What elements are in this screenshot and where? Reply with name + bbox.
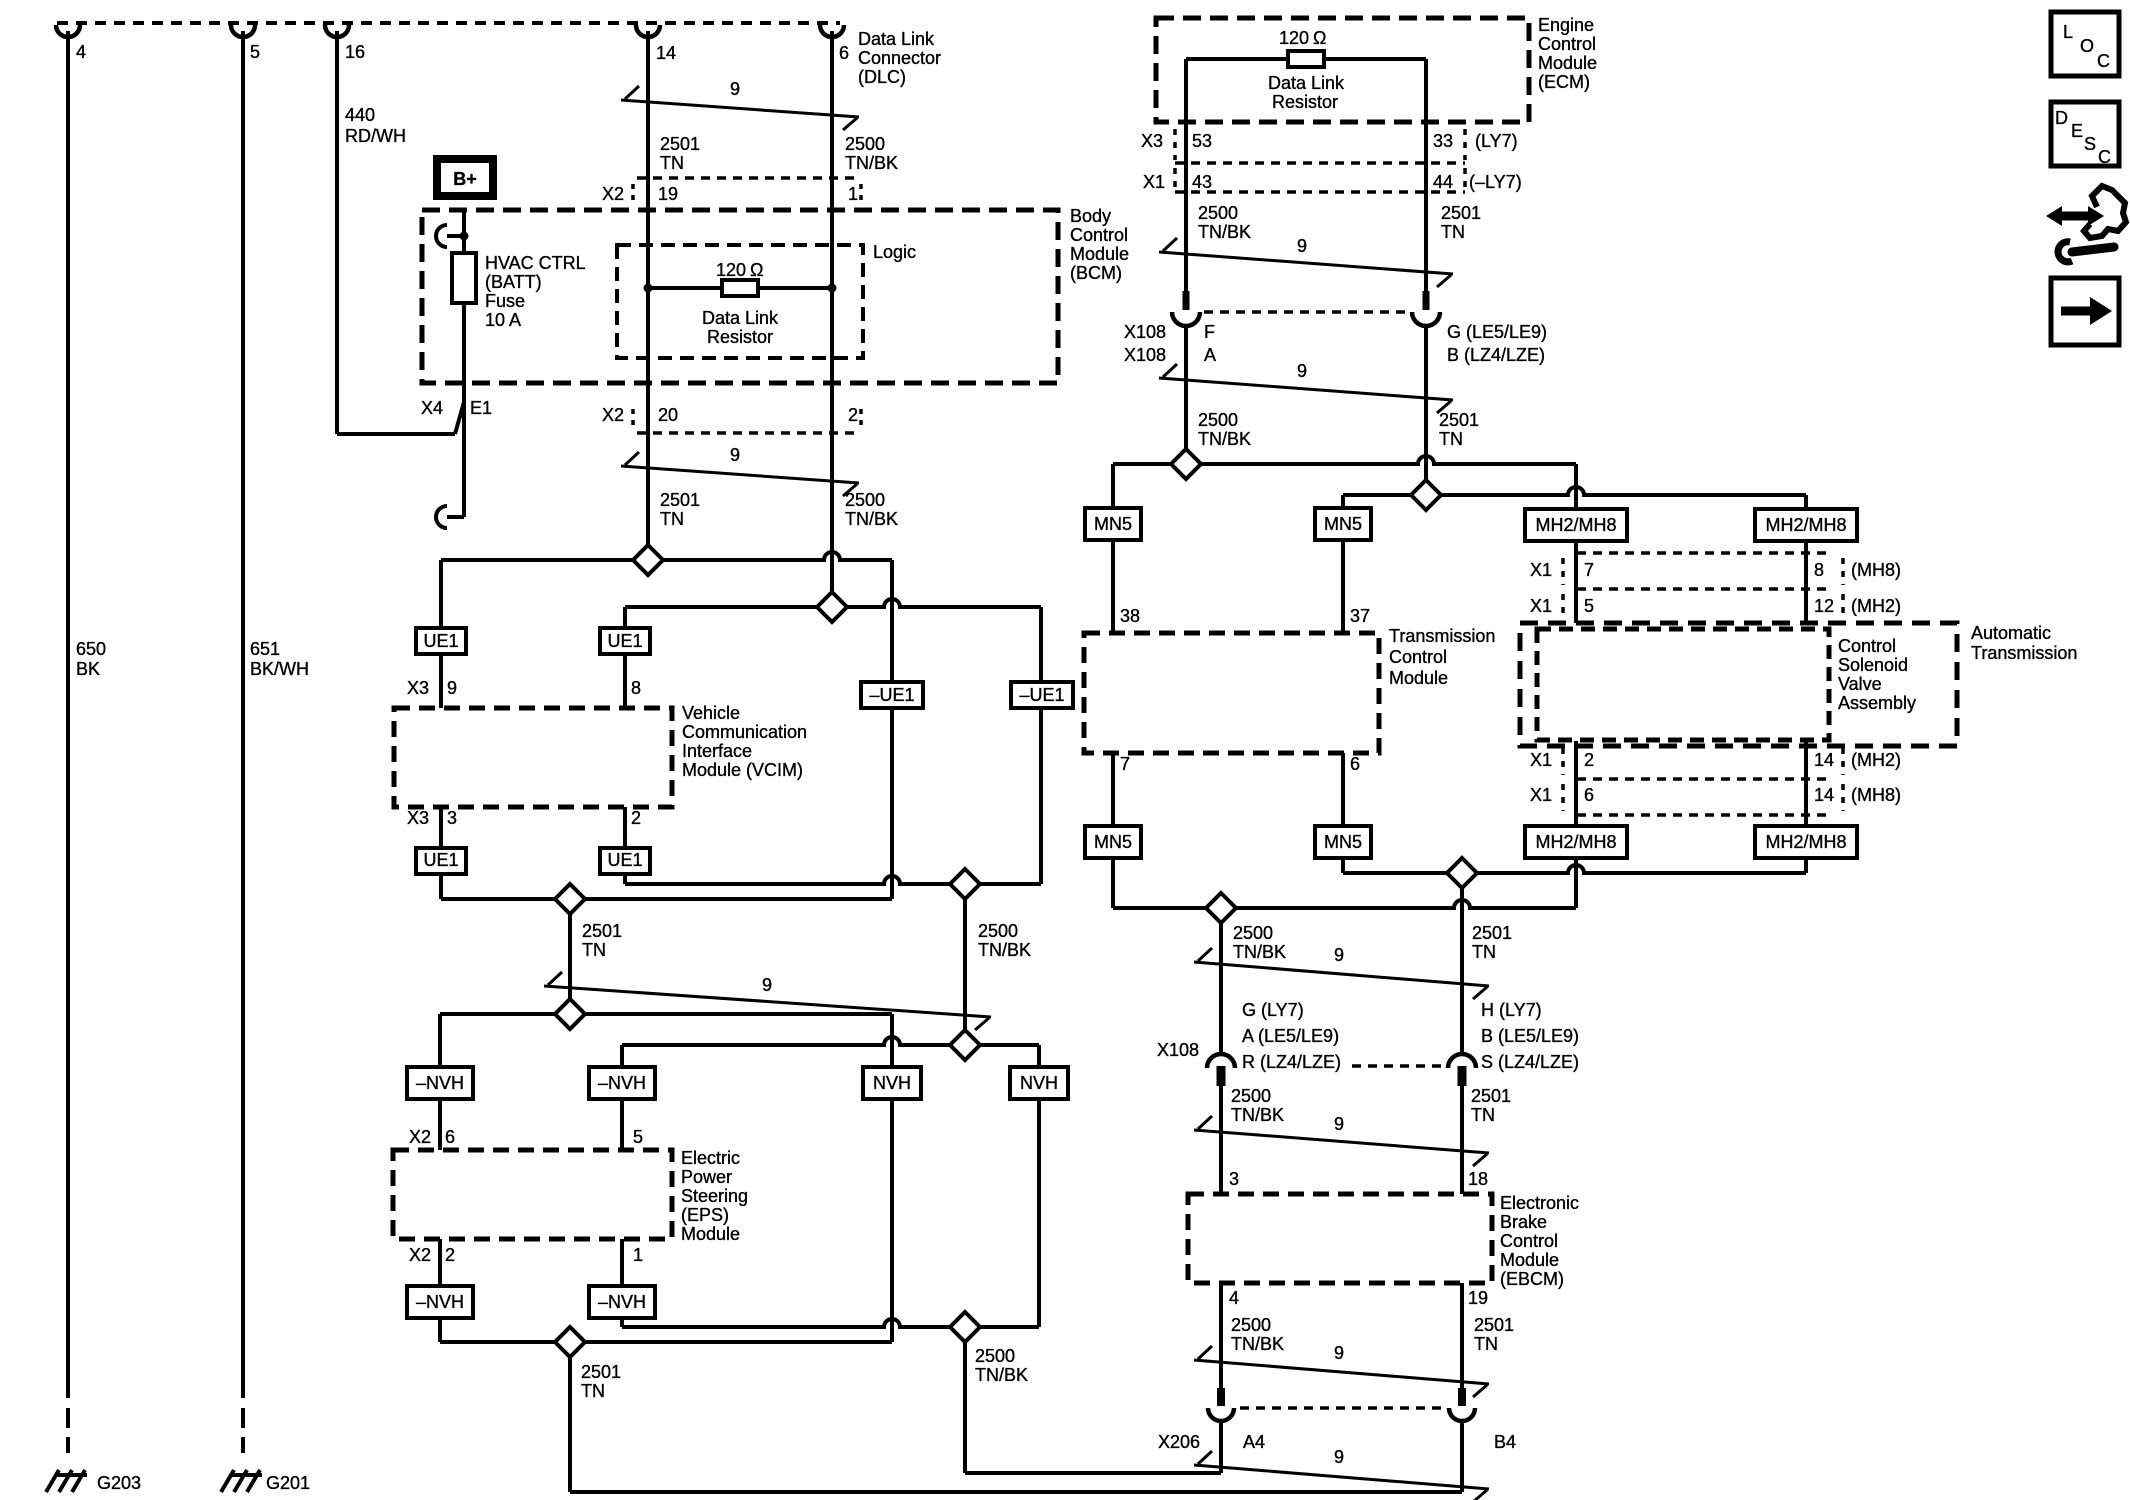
svg-text:2500: 2500 (1233, 923, 1273, 943)
svg-text:14: 14 (1814, 750, 1834, 770)
svg-text:A4: A4 (1243, 1432, 1265, 1452)
svg-text:2501: 2501 (660, 490, 700, 510)
svg-text:2501: 2501 (1441, 203, 1481, 223)
svg-text:UE1: UE1 (423, 631, 458, 651)
svg-text:2: 2 (848, 405, 858, 425)
svg-text:Vehicle: Vehicle (682, 703, 740, 723)
svg-text:8: 8 (1814, 560, 1824, 580)
svg-text:TN: TN (1439, 429, 1463, 449)
svg-text:X1: X1 (1530, 560, 1552, 580)
svg-text:53: 53 (1192, 131, 1212, 151)
svg-text:3: 3 (1229, 1169, 1239, 1189)
svg-text:B+: B+ (453, 169, 477, 189)
svg-text:38: 38 (1120, 606, 1140, 626)
svg-text:2500: 2500 (978, 921, 1018, 941)
svg-text:2500: 2500 (845, 134, 885, 154)
svg-text:TN: TN (1472, 942, 1496, 962)
svg-text:F: F (1204, 322, 1215, 342)
svg-text:Transmission: Transmission (1971, 643, 2077, 663)
svg-text:Power: Power (681, 1167, 732, 1187)
svg-text:44: 44 (1433, 172, 1453, 192)
svg-text:120: 120 (716, 260, 746, 280)
svg-text:S (LZ4/LZE): S (LZ4/LZE) (1481, 1052, 1579, 1072)
svg-text:2501: 2501 (660, 134, 700, 154)
svg-text:651: 651 (250, 639, 280, 659)
svg-text:10 A: 10 A (485, 310, 521, 330)
svg-text:TN/BK: TN/BK (978, 940, 1031, 960)
svg-text:(ECM): (ECM) (1538, 72, 1590, 92)
svg-text:E: E (2071, 121, 2083, 141)
svg-text:TN: TN (1474, 1334, 1498, 1354)
svg-text:B4: B4 (1494, 1432, 1516, 1452)
svg-text:MH2/MH8: MH2/MH8 (1765, 515, 1846, 535)
svg-text:33: 33 (1433, 131, 1453, 151)
svg-text:1: 1 (848, 184, 858, 204)
svg-text:X3: X3 (407, 678, 429, 698)
svg-text:X108: X108 (1124, 322, 1166, 342)
svg-text:Electronic: Electronic (1500, 1193, 1579, 1213)
svg-text:(BATT): (BATT) (485, 272, 542, 292)
svg-text:X1: X1 (1530, 596, 1552, 616)
svg-text:2500: 2500 (845, 490, 885, 510)
svg-text:9: 9 (730, 445, 740, 465)
svg-text:X2: X2 (602, 184, 624, 204)
svg-text:20: 20 (658, 405, 678, 425)
svg-text:Module: Module (1070, 244, 1129, 264)
svg-text:–NVH: –NVH (598, 1292, 646, 1312)
svg-text:B (LE5/LE9): B (LE5/LE9) (1481, 1026, 1579, 1046)
svg-text:Communication: Communication (682, 722, 807, 742)
svg-text:9: 9 (762, 975, 772, 995)
svg-text:Resistor: Resistor (1272, 92, 1338, 112)
svg-text:X2: X2 (409, 1127, 431, 1147)
svg-text:L: L (2063, 22, 2073, 42)
svg-text:TN/BK: TN/BK (845, 509, 898, 529)
svg-text:2: 2 (631, 808, 641, 828)
svg-text:Control: Control (1070, 225, 1128, 245)
svg-text:19: 19 (1468, 1288, 1488, 1308)
svg-text:37: 37 (1350, 606, 1370, 626)
svg-text:–NVH: –NVH (598, 1073, 646, 1093)
svg-text:Module (VCIM): Module (VCIM) (682, 760, 803, 780)
svg-text:6: 6 (1350, 754, 1360, 774)
svg-text:X2: X2 (409, 1245, 431, 1265)
svg-text:9: 9 (1334, 1114, 1344, 1134)
svg-text:G (LE5/LE9): G (LE5/LE9) (1447, 322, 1547, 342)
svg-text:UE1: UE1 (423, 850, 458, 870)
svg-text:TN/BK: TN/BK (1198, 222, 1251, 242)
svg-text:O: O (2080, 36, 2094, 56)
svg-text:(LY7): (LY7) (1475, 131, 1518, 151)
svg-text:18: 18 (1468, 1169, 1488, 1189)
svg-text:43: 43 (1192, 172, 1212, 192)
svg-text:Control: Control (1538, 34, 1596, 54)
svg-text:Module: Module (681, 1224, 740, 1244)
svg-text:BK/WH: BK/WH (250, 659, 309, 679)
svg-text:G203: G203 (97, 1473, 141, 1493)
svg-text:Data Link: Data Link (1268, 73, 1345, 93)
svg-text:Data Link: Data Link (858, 29, 935, 49)
svg-text:7: 7 (1584, 560, 1594, 580)
svg-text:TN/BK: TN/BK (845, 153, 898, 173)
svg-text:X108: X108 (1124, 345, 1166, 365)
svg-text:–NVH: –NVH (416, 1292, 464, 1312)
svg-text:Logic: Logic (873, 242, 916, 262)
svg-text:2501: 2501 (1471, 1086, 1511, 1106)
svg-text:Assembly: Assembly (1838, 693, 1916, 713)
svg-text:Valve: Valve (1838, 674, 1882, 694)
svg-text:(BCM): (BCM) (1070, 263, 1122, 283)
svg-text:3: 3 (447, 808, 457, 828)
svg-text:MN5: MN5 (1094, 514, 1132, 534)
svg-text:14: 14 (656, 43, 676, 63)
svg-text:2501: 2501 (1439, 410, 1479, 430)
svg-text:X108: X108 (1157, 1040, 1199, 1060)
svg-text:9: 9 (447, 678, 457, 698)
svg-text:NVH: NVH (873, 1073, 911, 1093)
svg-text:(MH2): (MH2) (1851, 596, 1901, 616)
svg-text:(–LY7): (–LY7) (1469, 172, 1522, 192)
svg-text:TN: TN (581, 1381, 605, 1401)
svg-text:5: 5 (250, 42, 260, 62)
svg-text:9: 9 (1334, 1447, 1344, 1467)
svg-text:2501: 2501 (582, 921, 622, 941)
svg-text:UE1: UE1 (607, 850, 642, 870)
svg-text:7: 7 (1120, 754, 1130, 774)
svg-text:5: 5 (1584, 596, 1594, 616)
svg-text:(MH8): (MH8) (1851, 560, 1901, 580)
svg-text:TN/BK: TN/BK (975, 1365, 1028, 1385)
svg-text:MH2/MH8: MH2/MH8 (1535, 515, 1616, 535)
svg-text:TN/BK: TN/BK (1231, 1334, 1284, 1354)
svg-text:(DLC): (DLC) (858, 67, 906, 87)
svg-text:Resistor: Resistor (707, 327, 773, 347)
svg-text:5: 5 (633, 1127, 643, 1147)
svg-text:D: D (2055, 108, 2068, 128)
svg-text:Fuse: Fuse (485, 291, 525, 311)
svg-text:2500: 2500 (1198, 203, 1238, 223)
svg-text:Module: Module (1389, 668, 1448, 688)
svg-text:R (LZ4/LZE): R (LZ4/LZE) (1242, 1052, 1341, 1072)
svg-text:A: A (1204, 345, 1216, 365)
svg-text:9: 9 (1297, 361, 1307, 381)
svg-text:12: 12 (1814, 596, 1834, 616)
svg-text:X206: X206 (1158, 1432, 1200, 1452)
svg-text:G201: G201 (266, 1473, 310, 1493)
svg-text:Automatic: Automatic (1971, 623, 2051, 643)
svg-text:9: 9 (1297, 236, 1307, 256)
svg-text:Data Link: Data Link (702, 308, 779, 328)
svg-text:TN: TN (582, 940, 606, 960)
svg-text:RD/WH: RD/WH (345, 126, 406, 146)
svg-text:MH2/MH8: MH2/MH8 (1535, 832, 1616, 852)
svg-text:Solenoid: Solenoid (1838, 655, 1908, 675)
svg-text:Steering: Steering (681, 1186, 748, 1206)
svg-text:A (LE5/LE9): A (LE5/LE9) (1242, 1026, 1339, 1046)
svg-text:Brake: Brake (1500, 1212, 1547, 1232)
svg-text:G (LY7): G (LY7) (1242, 1000, 1304, 1020)
svg-text:Electric: Electric (681, 1148, 740, 1168)
svg-text:MN5: MN5 (1324, 832, 1362, 852)
svg-text:–UE1: –UE1 (869, 685, 914, 705)
svg-text:8: 8 (631, 678, 641, 698)
svg-text:–UE1: –UE1 (1019, 685, 1064, 705)
svg-text:2500: 2500 (1198, 410, 1238, 430)
svg-text:14: 14 (1814, 785, 1834, 805)
svg-text:19: 19 (658, 184, 678, 204)
svg-text:X1: X1 (1530, 785, 1552, 805)
svg-text:TN: TN (660, 153, 684, 173)
svg-text:TN: TN (1471, 1105, 1495, 1125)
svg-text:Module: Module (1500, 1250, 1559, 1270)
svg-text:120: 120 (1279, 28, 1309, 48)
svg-text:C: C (2097, 51, 2110, 71)
svg-text:E1: E1 (470, 398, 492, 418)
svg-text:2501: 2501 (1474, 1315, 1514, 1335)
svg-text:MN5: MN5 (1094, 832, 1132, 852)
svg-text:HVAC CTRL: HVAC CTRL (485, 253, 586, 273)
svg-text:X1: X1 (1530, 750, 1552, 770)
svg-text:UE1: UE1 (607, 631, 642, 651)
svg-text:2: 2 (1584, 750, 1594, 770)
svg-text:2501: 2501 (581, 1362, 621, 1382)
svg-text:9: 9 (1334, 1343, 1344, 1363)
svg-text:2: 2 (445, 1245, 455, 1265)
svg-text:16: 16 (345, 42, 365, 62)
svg-text:TN: TN (660, 509, 684, 529)
svg-text:TN/BK: TN/BK (1198, 429, 1251, 449)
svg-text:9: 9 (730, 79, 740, 99)
svg-text:(MH2): (MH2) (1851, 750, 1901, 770)
svg-text:Control: Control (1500, 1231, 1558, 1251)
svg-text:(EPS): (EPS) (681, 1205, 729, 1225)
svg-text:Module: Module (1538, 53, 1597, 73)
svg-text:440: 440 (345, 105, 375, 125)
svg-text:Interface: Interface (682, 741, 752, 761)
svg-text:–NVH: –NVH (416, 1073, 464, 1093)
svg-text:MH2/MH8: MH2/MH8 (1765, 832, 1846, 852)
svg-text:9: 9 (1334, 945, 1344, 965)
svg-text:Body: Body (1070, 206, 1111, 226)
svg-text:BK: BK (76, 659, 100, 679)
svg-text:6: 6 (839, 43, 849, 63)
svg-text:Connector: Connector (858, 48, 941, 68)
svg-text:Transmission: Transmission (1389, 626, 1495, 646)
svg-text:X4: X4 (421, 398, 443, 418)
svg-text:2501: 2501 (1472, 923, 1512, 943)
svg-text:H (LY7): H (LY7) (1481, 1000, 1542, 1020)
svg-text:650: 650 (76, 639, 106, 659)
svg-text:TN/BK: TN/BK (1231, 1105, 1284, 1125)
svg-text:2500: 2500 (975, 1346, 1015, 1366)
svg-text:X2: X2 (602, 405, 624, 425)
svg-text:TN/BK: TN/BK (1233, 942, 1286, 962)
svg-text:2500: 2500 (1231, 1086, 1271, 1106)
svg-text:TN: TN (1441, 222, 1465, 242)
svg-text:Control: Control (1838, 636, 1896, 656)
svg-text:Ω: Ω (750, 260, 763, 280)
svg-text:MN5: MN5 (1324, 514, 1362, 534)
svg-text:Engine: Engine (1538, 15, 1594, 35)
svg-text:6: 6 (1584, 785, 1594, 805)
svg-text:X3: X3 (1141, 131, 1163, 151)
svg-text:1: 1 (633, 1245, 643, 1265)
svg-text:4: 4 (1229, 1288, 1239, 1308)
svg-text:X1: X1 (1143, 172, 1165, 192)
svg-text:2500: 2500 (1231, 1315, 1271, 1335)
svg-text:S: S (2084, 134, 2096, 154)
svg-text:(MH8): (MH8) (1851, 785, 1901, 805)
svg-text:X3: X3 (407, 808, 429, 828)
svg-text:(EBCM): (EBCM) (1500, 1269, 1564, 1289)
svg-text:C: C (2098, 147, 2111, 167)
svg-text:Control: Control (1389, 647, 1447, 667)
svg-text:Ω: Ω (1313, 28, 1326, 48)
svg-text:4: 4 (76, 42, 86, 62)
svg-text:NVH: NVH (1020, 1073, 1058, 1093)
svg-text:B (LZ4/LZE): B (LZ4/LZE) (1447, 345, 1545, 365)
svg-text:6: 6 (445, 1127, 455, 1147)
